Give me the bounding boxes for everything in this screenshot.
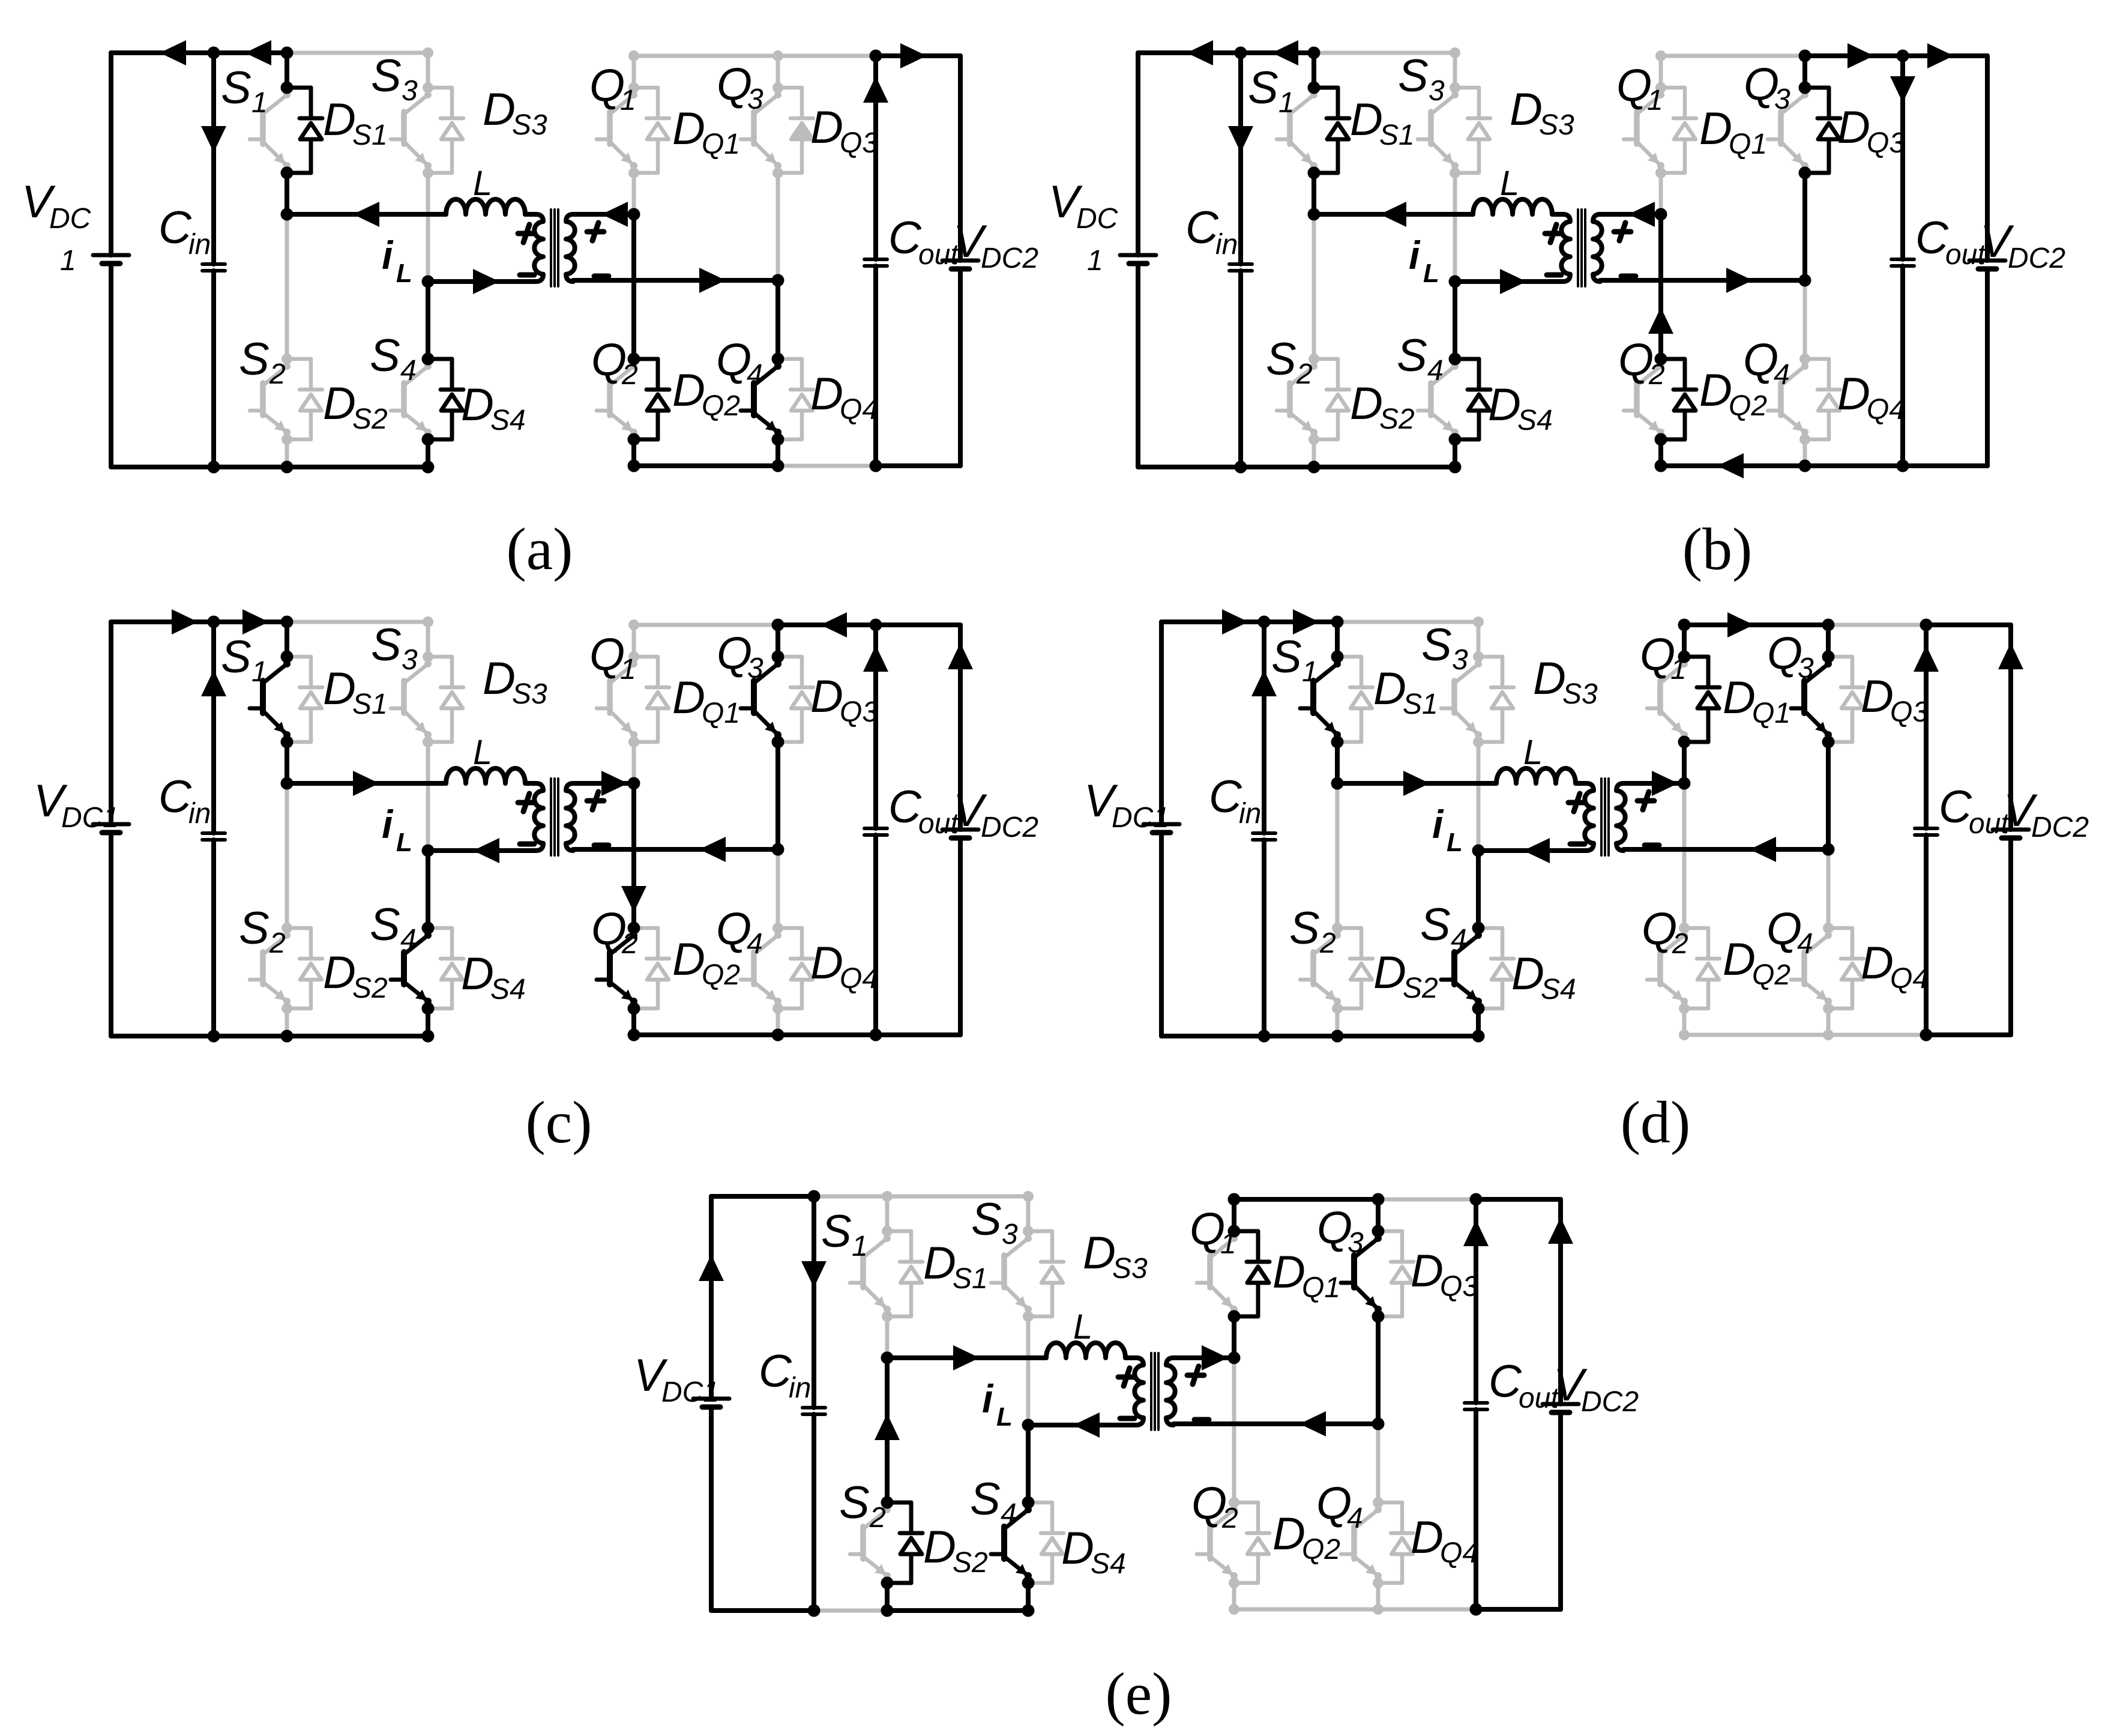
diode DS2 (c) bbox=[287, 928, 322, 1008]
svg-text:3: 3 bbox=[1429, 75, 1445, 107]
label DS4 (e) bbox=[1061, 1523, 1126, 1580]
wire (b) S3 leg upper bbox=[1453, 53, 1457, 88]
node (d) Q3 top jog bbox=[1822, 651, 1835, 663]
current arrow (d) Cin up bbox=[1251, 670, 1277, 696]
node (e) S4 bottom jog bbox=[1022, 1577, 1035, 1590]
svg-text:D: D bbox=[1837, 369, 1870, 420]
label DS4 (c) bbox=[461, 948, 526, 1005]
wire (c) Q3 leg lower bbox=[775, 742, 780, 849]
wire (e) S4 leg upper bbox=[1026, 1425, 1031, 1502]
node (a) S4 bottom jog bbox=[422, 433, 435, 446]
node (d) S1 top jog bbox=[1331, 651, 1344, 663]
current arrow (d) iL right bbox=[1403, 771, 1430, 796]
node (d) top rail Q3 junction bbox=[1822, 619, 1835, 631]
node D (a) bbox=[772, 274, 784, 287]
label + secondary (d) bbox=[1637, 792, 1654, 810]
wire (d) Q3 leg upper bbox=[1826, 625, 1831, 657]
diode DQ1 (a) bbox=[634, 88, 669, 173]
node (c) Q2 bottom jog bbox=[628, 1002, 640, 1015]
label DS3 (a) bbox=[483, 84, 547, 141]
wire (a) bottom rail Cout to VDC2 bbox=[876, 463, 960, 468]
label DS2 (a) bbox=[323, 378, 388, 435]
label DS3 (b) bbox=[1510, 84, 1574, 141]
transistor S1 IGBT (a) bbox=[250, 91, 291, 169]
transistor S1 IGBT (b) bbox=[1277, 91, 1317, 169]
node (e) S3 bottom jog bbox=[1023, 1311, 1034, 1322]
label Q1 (a) bbox=[589, 60, 636, 116]
wire (d) S2 leg lower bbox=[1336, 1008, 1340, 1036]
svg-text:S: S bbox=[239, 334, 270, 385]
voltage source VDC1 (a) bbox=[93, 53, 129, 467]
svg-text:i: i bbox=[1432, 802, 1444, 846]
svg-text:D: D bbox=[461, 948, 494, 999]
label - secondary (a) bbox=[594, 274, 609, 279]
svg-text:Q3: Q3 bbox=[1440, 1271, 1478, 1303]
label Cout (d) bbox=[1939, 782, 2010, 840]
svg-text:4: 4 bbox=[1347, 1502, 1363, 1534]
node (a) S4 top jog bbox=[422, 353, 435, 366]
wire (c) S2 leg lower bbox=[285, 1008, 289, 1036]
label S4 (a) bbox=[370, 330, 417, 387]
label DS3 (e) bbox=[1083, 1228, 1148, 1285]
svg-text:D: D bbox=[923, 1238, 956, 1289]
node (a) top rail Cin junction bbox=[208, 47, 220, 59]
wire (b) S2 leg lower bbox=[1312, 439, 1316, 467]
svg-text:C: C bbox=[888, 212, 922, 264]
wire (a) S1 leg upper bbox=[285, 53, 289, 88]
svg-text:2: 2 bbox=[1672, 928, 1688, 960]
current arrow (b) secondary bottom right bbox=[1726, 268, 1753, 293]
node (b) Q3 bottom jog bbox=[1799, 167, 1811, 179]
wire (e) S1 leg lower bbox=[885, 1316, 890, 1358]
svg-text:in: in bbox=[188, 229, 211, 261]
label Cin (e) bbox=[759, 1346, 811, 1404]
svg-text:L: L bbox=[1447, 828, 1463, 857]
current arrow (a) primary bottom right bbox=[473, 269, 499, 294]
svg-text:1: 1 bbox=[1670, 654, 1687, 686]
label Cout (a) bbox=[888, 212, 959, 271]
wire (d) Q1 leg upper bbox=[1682, 625, 1687, 657]
svg-text:D: D bbox=[1488, 379, 1521, 430]
transistor Q3 IGBT (c) bbox=[741, 660, 781, 738]
transistor S2 IGBT (e) bbox=[850, 1506, 891, 1579]
svg-text:D: D bbox=[810, 369, 843, 420]
label S1 (d) bbox=[1271, 631, 1318, 688]
wire (b) Q3 leg lower bbox=[1802, 173, 1807, 280]
voltage source VDC1 (b) bbox=[1120, 53, 1156, 467]
wire (c) Q2 leg upper bbox=[631, 783, 636, 928]
inductor L (a) bbox=[446, 199, 525, 214]
wire (b) top rail Q3 to Cout bbox=[1805, 53, 1903, 58]
node (a) bottom rail Q4 junction bbox=[772, 460, 784, 472]
node (b) Q2 top jog bbox=[1655, 353, 1667, 366]
wire (a) node A to inductor bbox=[287, 212, 446, 217]
label DS2 (b) bbox=[1350, 378, 1415, 435]
label DS1 (a) bbox=[323, 94, 388, 151]
label S4 (b) bbox=[1397, 330, 1444, 387]
diode DQ3 (b) bbox=[1805, 88, 1840, 173]
current arrow (c) top rail right 1 bbox=[172, 609, 198, 634]
svg-text:3: 3 bbox=[1774, 83, 1790, 115]
svg-text:2: 2 bbox=[1296, 358, 1313, 390]
svg-text:3: 3 bbox=[1348, 1227, 1364, 1259]
label S4 (d) bbox=[1420, 899, 1467, 956]
wire (c) primary bottom to node B bbox=[428, 848, 536, 853]
diode DS3 (d) bbox=[1478, 657, 1514, 742]
node C (a) bbox=[628, 208, 640, 221]
svg-text:Q3: Q3 bbox=[840, 127, 878, 159]
svg-text:Q3: Q3 bbox=[1867, 127, 1905, 159]
transistor Q1 IGBT (a) bbox=[597, 91, 637, 169]
svg-text:i: i bbox=[382, 802, 394, 846]
svg-text:S: S bbox=[221, 62, 251, 113]
wire (d) node A to inductor bbox=[1337, 781, 1496, 786]
svg-text:S2: S2 bbox=[1379, 403, 1415, 435]
label DS4 (b) bbox=[1488, 379, 1553, 436]
node (e) top rail Cout junction bbox=[1470, 1193, 1483, 1206]
wire (d) S3 leg upper bbox=[1477, 622, 1481, 657]
label S2 (b) bbox=[1266, 334, 1313, 390]
inductor L (e) bbox=[1046, 1343, 1125, 1358]
current arrow (e) iL right bbox=[953, 1345, 980, 1370]
svg-text:(b): (b) bbox=[1682, 516, 1753, 582]
transistor Q1 IGBT (d) bbox=[1647, 660, 1688, 738]
node (c) Q4 top jog bbox=[772, 923, 783, 933]
svg-text:1: 1 bbox=[251, 87, 268, 119]
svg-text:S2: S2 bbox=[1403, 972, 1438, 1004]
transistor S2 IGBT (b) bbox=[1277, 363, 1317, 436]
svg-text:Q2: Q2 bbox=[702, 959, 740, 991]
svg-text:2: 2 bbox=[1221, 1502, 1238, 1534]
svg-text:D: D bbox=[323, 663, 356, 714]
transistor S1 IGBT (d) bbox=[1300, 660, 1341, 738]
wire (a) bottom rail Q4 to Cout bbox=[778, 464, 876, 468]
node (a) S3 bottom jog bbox=[423, 167, 433, 178]
transformer core (d) bbox=[1601, 779, 1609, 855]
label - primary (a) bbox=[520, 273, 534, 278]
node (a) S1 top jog bbox=[281, 82, 294, 94]
label Cin (b) bbox=[1185, 202, 1238, 261]
current arrow (b) Q2 leg up bbox=[1648, 307, 1673, 334]
transformer secondary winding (a) bbox=[566, 214, 575, 282]
diode DQ2 (c) bbox=[634, 928, 669, 1008]
current arrow (b) Cout down bbox=[1890, 76, 1915, 103]
node A (e) bbox=[881, 1352, 894, 1364]
node (d) S1 bottom jog bbox=[1331, 736, 1344, 749]
current arrow (a) top rail left 2 bbox=[245, 40, 271, 65]
node A (b) bbox=[1308, 208, 1320, 221]
node (d) S2 bottom jog bbox=[1332, 1003, 1343, 1014]
svg-text:3: 3 bbox=[1002, 1219, 1018, 1250]
label VDC2 (d) bbox=[2004, 785, 2089, 843]
label DQ1 (b) bbox=[1699, 103, 1767, 160]
wire (b) top rail Cout to VDC2 bbox=[1903, 53, 1987, 58]
wire (b) bottom rail Q2 to Q4 bbox=[1661, 463, 1805, 468]
label VDC2 (a) bbox=[953, 216, 1038, 274]
label S3 (a) bbox=[371, 50, 418, 107]
svg-text:DC2: DC2 bbox=[1581, 1386, 1639, 1418]
current arrow (d) Cout up bbox=[1914, 645, 1939, 672]
label Q4 (b) bbox=[1743, 334, 1790, 391]
wire (c) Q1 leg lower bbox=[632, 742, 636, 783]
svg-text:D: D bbox=[1411, 1512, 1444, 1563]
svg-text:D: D bbox=[1350, 378, 1383, 429]
diode DS2 (e) bbox=[887, 1502, 923, 1583]
svg-text:D: D bbox=[1723, 934, 1756, 985]
wire (e) S1 leg upper bbox=[885, 1196, 890, 1231]
svg-text:D: D bbox=[1510, 84, 1543, 135]
svg-text:(a): (a) bbox=[507, 516, 573, 582]
diode DQ2 (a) bbox=[634, 359, 669, 439]
node (b) top rail S1 junction bbox=[1308, 47, 1320, 59]
label DQ2 (d) bbox=[1723, 934, 1790, 991]
svg-text:(d): (d) bbox=[1621, 1089, 1691, 1156]
node (b) Q1 top jog bbox=[1655, 82, 1666, 93]
wire (c) top rail Cout to VDC2 bbox=[876, 622, 960, 627]
node (c) top rail Q1 junction bbox=[628, 619, 639, 630]
svg-text:2: 2 bbox=[621, 928, 638, 960]
diode DQ3 (c) bbox=[778, 657, 813, 742]
wire (b) S4 leg lower bbox=[1453, 439, 1457, 467]
svg-text:2: 2 bbox=[869, 1502, 886, 1534]
label + primary (d) bbox=[1568, 794, 1585, 812]
svg-text:C: C bbox=[158, 202, 192, 253]
node (e) Q4 top jog bbox=[1373, 1497, 1384, 1508]
label - primary (c) bbox=[520, 842, 534, 847]
transistor Q3 IGBT (a) bbox=[741, 91, 781, 169]
node (b) bottom rail S4 junction bbox=[1449, 461, 1462, 474]
wire (c) S4 leg upper bbox=[426, 851, 430, 928]
label DQ1 (d) bbox=[1723, 672, 1790, 729]
wire (b) top rail S1 to S3 (inactive) bbox=[1314, 51, 1455, 55]
svg-text:S1: S1 bbox=[352, 119, 388, 151]
wire (b) S1 leg lower bbox=[1311, 173, 1316, 214]
node (a) Q4 bottom jog bbox=[772, 433, 784, 446]
svg-text:C: C bbox=[1209, 771, 1242, 822]
current arrow (b) iL left bbox=[1380, 202, 1406, 227]
label Q2 (d) bbox=[1642, 903, 1688, 960]
wire (a) Q2 leg lower bbox=[631, 439, 636, 466]
svg-text:D: D bbox=[672, 672, 705, 723]
capacitor Cout (c) bbox=[864, 625, 887, 1035]
label DQ1 (c) bbox=[672, 672, 740, 729]
svg-text:S: S bbox=[1397, 330, 1427, 381]
node (c) bottom rail Cout junction bbox=[870, 1029, 882, 1041]
svg-text:4: 4 bbox=[747, 928, 763, 960]
node (b) S2 bottom jog bbox=[1308, 434, 1319, 445]
label DQ4 (a) bbox=[810, 369, 878, 426]
diode DS1 (a) bbox=[287, 88, 322, 173]
svg-text:D: D bbox=[1373, 947, 1406, 998]
current arrow (e) VDC1 up bbox=[699, 1255, 724, 1281]
node (a) S2 bottom jog bbox=[282, 434, 292, 445]
wire (d) top rail S1 to S3 (inactive) bbox=[1337, 620, 1478, 624]
wire (b) Q1 leg lower bbox=[1659, 173, 1663, 214]
node (c) Q3 top jog bbox=[772, 651, 784, 663]
label Q1 (c) bbox=[589, 629, 636, 686]
svg-text:S3: S3 bbox=[1562, 678, 1598, 710]
svg-text:Q4: Q4 bbox=[840, 963, 878, 995]
node (e) top rail Q3 junction bbox=[1372, 1193, 1385, 1206]
voltage source VDC2 (a) bbox=[942, 56, 978, 466]
diode DS2 (b) bbox=[1314, 359, 1349, 439]
label VDC2 (b) bbox=[1980, 216, 2065, 274]
transformer core (a) bbox=[551, 209, 558, 286]
label S3 (b) bbox=[1398, 50, 1445, 107]
svg-text:(e): (e) bbox=[1106, 1660, 1172, 1727]
label Cout (b) bbox=[1915, 212, 1986, 271]
node (b) bottom rail Q2 junction bbox=[1655, 460, 1667, 472]
diode DQ3 (e) bbox=[1378, 1231, 1414, 1316]
svg-text:S: S bbox=[970, 1474, 1001, 1525]
wire (b) S2 leg upper bbox=[1312, 214, 1316, 359]
wire (e) Q3 leg upper bbox=[1376, 1199, 1381, 1231]
wire (d) Q3 leg lower bbox=[1826, 742, 1831, 849]
wire (b) bottom rail VDC1 to S4 bbox=[1138, 465, 1455, 469]
node A (a) bbox=[281, 208, 294, 221]
svg-text:Q2: Q2 bbox=[1752, 959, 1790, 991]
label S3 (d) bbox=[1421, 619, 1468, 676]
svg-text:4: 4 bbox=[1797, 928, 1813, 960]
node (c) bottom rail S2 junction bbox=[281, 1030, 294, 1043]
wire (c) bottom rail Cout to VDC2 bbox=[876, 1032, 960, 1037]
node (c) top rail S1 junction bbox=[281, 616, 294, 628]
node (a) bottom rail S2 junction bbox=[281, 461, 294, 474]
node (a) top rail Cout junction bbox=[870, 50, 882, 62]
svg-text:2: 2 bbox=[1319, 927, 1336, 959]
label DQ3 (c) bbox=[810, 671, 878, 728]
node (b) bottom rail Cin junction bbox=[1235, 461, 1247, 474]
diode DQ4 (d) bbox=[1828, 928, 1864, 1008]
transistor S3 IGBT (b) bbox=[1418, 91, 1459, 169]
svg-text:4: 4 bbox=[1427, 355, 1444, 387]
current arrow (b) Cin down bbox=[1228, 126, 1253, 152]
node (c) Q4 bottom jog bbox=[772, 1003, 783, 1014]
current arrow (d) secondary bottom left bbox=[1750, 837, 1776, 862]
current arrow (c) Cin up bbox=[201, 670, 226, 696]
wire (a) secondary top to node C bbox=[573, 212, 634, 217]
label Q4 (d) bbox=[1766, 903, 1813, 960]
wire (c) bottom rail VDC1 to S4 bbox=[111, 1034, 428, 1038]
wire (a) top rail S1 to S3 (inactive) bbox=[287, 51, 428, 55]
wire (c) top rail Q3 to Cout bbox=[778, 622, 876, 627]
svg-text:C: C bbox=[888, 782, 922, 833]
wire (d) S3 leg lower bbox=[1477, 742, 1481, 851]
label iL (b) bbox=[1409, 233, 1439, 288]
wire (c) bottom rail Q4 to Cout bbox=[778, 1032, 876, 1037]
node (c) bottom rail Cin junction bbox=[208, 1030, 220, 1043]
svg-text:Q2: Q2 bbox=[1729, 390, 1767, 422]
node (c) S1 bottom jog bbox=[281, 736, 294, 749]
diode DS4 (c) bbox=[428, 928, 463, 1008]
svg-text:1: 1 bbox=[251, 656, 268, 688]
svg-text:S: S bbox=[1398, 50, 1429, 101]
node (c) Q2 top jog bbox=[628, 922, 640, 935]
node (a) S1 bottom jog bbox=[281, 167, 294, 179]
svg-text:Q2: Q2 bbox=[1302, 1534, 1340, 1566]
svg-text:3: 3 bbox=[402, 644, 418, 676]
wire (e) S2 leg upper bbox=[885, 1358, 890, 1502]
transformer primary winding (c) bbox=[534, 783, 543, 851]
svg-text:D: D bbox=[483, 84, 516, 135]
current arrow (a) Cin down bbox=[201, 126, 226, 152]
diode DQ4 (c) bbox=[778, 928, 813, 1008]
svg-text:1: 1 bbox=[620, 654, 636, 686]
wire (e) top rail Cout to VDC2 bbox=[1476, 1197, 1561, 1202]
wire (a) S3 leg lower bbox=[426, 173, 430, 282]
wire (e) Q2 leg lower bbox=[1232, 1583, 1236, 1609]
svg-text:S1: S1 bbox=[953, 1263, 988, 1295]
current arrow (c) VDC2 up bbox=[948, 643, 973, 669]
transistor Q2 IGBT (a) bbox=[597, 363, 637, 436]
svg-text:Q1: Q1 bbox=[702, 698, 740, 729]
node (d) top rail Q1 junction bbox=[1678, 619, 1691, 631]
node (d) bottom rail Cout junction bbox=[1920, 1029, 1933, 1041]
current arrow (e) Cout up bbox=[1463, 1220, 1489, 1246]
svg-text:Q1: Q1 bbox=[1302, 1272, 1340, 1304]
node (e) bottom rail Q2 junction bbox=[1229, 1604, 1239, 1615]
node (c) S4 bottom jog bbox=[422, 1002, 435, 1015]
inductor L (c) bbox=[446, 768, 525, 783]
transistor Q4 IGBT (e) bbox=[1341, 1506, 1382, 1579]
label DQ2 (a) bbox=[672, 365, 740, 422]
label Q4 (c) bbox=[716, 903, 763, 960]
svg-text:D: D bbox=[810, 671, 843, 722]
node (e) Q4 bottom jog bbox=[1373, 1578, 1384, 1588]
label S2 (a) bbox=[239, 334, 286, 390]
label Cout (c) bbox=[888, 782, 959, 840]
wire (c) S2 leg upper bbox=[285, 783, 289, 928]
diode DS2 (a) bbox=[287, 359, 322, 439]
label Q4 (a) bbox=[716, 334, 763, 391]
current arrow (b) top rail left 2 bbox=[1272, 40, 1298, 65]
label Q3 (c) bbox=[717, 628, 763, 684]
wire (e) S3 leg lower bbox=[1026, 1316, 1031, 1425]
wire (e) bottom rail Q4 to Cout bbox=[1378, 1608, 1476, 1612]
svg-text:Q3: Q3 bbox=[840, 696, 878, 728]
wire (d) S1 leg upper bbox=[1335, 622, 1340, 657]
diode DS3 (a) bbox=[428, 88, 463, 173]
node (c) Q1 top jog bbox=[628, 651, 639, 662]
diode DS4 (d) bbox=[1478, 928, 1514, 1008]
label VDC2 (c) bbox=[953, 785, 1038, 843]
transformer primary winding (e) bbox=[1134, 1358, 1143, 1425]
wire (c) S1 leg lower bbox=[285, 742, 289, 783]
svg-text:L: L bbox=[1423, 259, 1439, 288]
transformer secondary winding (b) bbox=[1593, 214, 1602, 282]
label S2 (c) bbox=[239, 903, 286, 959]
svg-text:D: D bbox=[1861, 671, 1894, 722]
current arrow (b) top rail Q3-Cout right bbox=[1847, 43, 1874, 68]
transistor Q2 IGBT (e) bbox=[1197, 1506, 1238, 1579]
node (a) Q2 top jog bbox=[628, 353, 640, 366]
diode DS2 (d) bbox=[1337, 928, 1373, 1008]
node (c) Q1 bottom jog bbox=[628, 737, 639, 747]
node (b) S1 bottom jog bbox=[1308, 167, 1320, 179]
node (d) S3 bottom jog bbox=[1473, 737, 1484, 747]
node (c) S1 top jog bbox=[281, 651, 294, 663]
current arrow (c) secondary top right bbox=[601, 771, 628, 796]
wire (a) Q1 leg upper bbox=[632, 56, 636, 88]
node (b) S3 top jog bbox=[1450, 82, 1460, 93]
node (b) S3 bottom jog bbox=[1450, 167, 1460, 178]
label - secondary (c) bbox=[594, 843, 609, 848]
label Q3 (d) bbox=[1767, 628, 1814, 684]
node (c) top rail Q3 junction bbox=[772, 619, 784, 631]
current arrow (a) secondary bottom right bbox=[699, 268, 726, 293]
current arrow (e) Cin down bbox=[801, 1261, 827, 1288]
transistor Q4 IGBT (b) bbox=[1768, 363, 1808, 436]
